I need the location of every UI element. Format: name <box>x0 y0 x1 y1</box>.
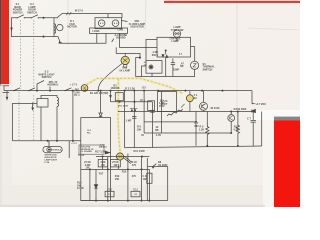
feed diode D5 <box>100 91 102 113</box>
switch S2 <box>31 15 37 18</box>
scan dark left edge <box>0 0 1 86</box>
svg-text:LOAD: LOAD <box>92 30 99 33</box>
wire lamp to board (curved) <box>98 64 122 91</box>
label 2C RECT <box>160 100 167 106</box>
label B1 <box>67 20 76 29</box>
leader diagonal <box>123 156 132 164</box>
socket feed from top <box>107 14 109 18</box>
svg-text:SWITCH: SWITCH <box>42 76 52 79</box>
wire branch to DS2 lamp <box>116 47 140 56</box>
main bus <box>4 81 256 105</box>
label DS2 <box>119 67 130 73</box>
lamp DS4 (yellow highlighted) <box>116 153 123 160</box>
label .1MF <box>152 51 159 57</box>
arrow D8 <box>152 164 156 167</box>
cap C6 symbol <box>132 117 136 119</box>
wire W27A horizontal <box>62 14 122 18</box>
svg-text:1W: 1W <box>101 164 105 167</box>
label DS1 <box>129 20 146 29</box>
right circuit <box>195 91 262 147</box>
rect box 2C <box>158 92 177 112</box>
yellow halo A <box>87 78 184 93</box>
Motorola oval <box>43 147 62 153</box>
label F1 <box>194 94 198 100</box>
red bar left <box>2 0 10 84</box>
left aux circuit <box>13 91 81 158</box>
svg-text:MOTOROLA: MOTOROLA <box>50 149 62 152</box>
scan edge shadow bottom <box>0 205 265 207</box>
lamp F1 (yellow highlighted) <box>186 95 193 102</box>
lamp DS2 (yellow highlighted) <box>98 53 129 90</box>
stub left of ballast <box>146 40 157 61</box>
label D2 <box>111 84 120 90</box>
scan edge shadow left bottom <box>0 84 2 207</box>
cap symbol inside <box>149 65 153 69</box>
white band above red block <box>251 110 300 120</box>
pilot lamp PL1 (yellow) <box>81 85 88 92</box>
svg-text:1.2K: 1.2K <box>199 128 204 131</box>
label R9 <box>199 126 204 132</box>
small boxes bottom <box>105 191 114 197</box>
svg-text:6V LAMP: 6V LAMP <box>119 69 130 72</box>
diode pair D1 <box>161 54 168 58</box>
switch S1 contact <box>17 17 18 18</box>
svg-text:SWITCH: SWITCH <box>27 11 37 14</box>
socket circle right <box>112 20 119 27</box>
svg-text:1W: 1W <box>114 164 118 167</box>
wire to AC outlet lower <box>54 37 106 44</box>
svg-text:470: 470 <box>132 164 137 167</box>
right edge wire <box>261 112 263 147</box>
thermal switch S4 <box>191 61 199 69</box>
label .47MF <box>144 53 185 72</box>
aux wires <box>40 107 42 141</box>
svg-text:+ 17 V: + 17 V <box>70 84 78 87</box>
svg-text:LAMP: LAMP <box>171 40 178 43</box>
diode D4 <box>252 109 256 112</box>
mains entry bracket <box>3 86 38 141</box>
vertical feeds <box>124 91 126 148</box>
svg-text:R17 1/2W: R17 1/2W <box>95 151 107 154</box>
socket mounting plate <box>90 28 128 33</box>
switch S1 <box>17 15 23 18</box>
svg-text:IN 4123: IN 4123 <box>211 107 220 110</box>
socket circle left <box>98 20 105 27</box>
switch S1 contact <box>24 17 25 18</box>
cap C7 <box>251 120 256 122</box>
svg-text:MOTOR: MOTOR <box>67 26 76 29</box>
yellow trace B <box>118 79 120 153</box>
label noise board <box>115 34 128 40</box>
lamp DS3 <box>173 30 180 37</box>
svg-text:1W: 1W <box>86 167 90 170</box>
bottom board circuit <box>81 154 168 202</box>
verticals <box>89 169 91 200</box>
svg-text:TP14: TP14 <box>78 154 85 157</box>
label lamp C7W <box>171 26 184 32</box>
wire S1-S2 <box>24 17 31 19</box>
svg-text:600 V: 600 V <box>152 54 159 57</box>
middle grid <box>109 91 262 148</box>
white gap left of red block <box>263 120 274 207</box>
resistor box R2 <box>115 93 123 101</box>
label S3 <box>38 71 55 80</box>
svg-text:1 MF: 1 MF <box>126 120 132 123</box>
junction node <box>42 17 44 19</box>
svg-text:W 27 A: W 27 A <box>75 10 83 13</box>
wire W27A riser <box>57 14 62 18</box>
ground arrow <box>32 103 34 108</box>
svg-text:1W: 1W <box>143 178 147 181</box>
svg-text:470: 470 <box>132 175 137 178</box>
bus nodes <box>36 90 38 92</box>
red block bottom right <box>274 120 300 207</box>
svg-text:D4 IN 4003: D4 IN 4003 <box>234 108 247 111</box>
resistor R9 <box>206 122 209 146</box>
svg-text:NORMAL: NORMAL <box>48 83 59 86</box>
svg-text:W.L.: W.L. <box>87 133 92 135</box>
label R11 <box>233 126 238 132</box>
svg-text:21.2K: 21.2K <box>77 187 84 190</box>
resistor boxes <box>98 160 107 167</box>
svg-text:22MF: 22MF <box>173 69 180 72</box>
junction node <box>42 36 44 38</box>
note box <box>79 145 104 154</box>
left leg <box>195 112 197 146</box>
svg-text:C11: C11 <box>133 188 138 191</box>
label 7W MSC <box>169 37 181 43</box>
svg-text:C 7: C 7 <box>247 118 252 121</box>
label R8 <box>137 126 162 137</box>
label S4 <box>203 63 216 72</box>
svg-text:+17 V: +17 V <box>71 143 77 145</box>
svg-text:D01 1/2W: D01 1/2W <box>134 150 146 153</box>
svg-text:P.L. BOARD: P.L. BOARD <box>80 150 92 153</box>
label C5 <box>159 100 165 108</box>
transistor Q1 <box>200 102 208 110</box>
wire motor bottom return <box>12 36 55 38</box>
leader to DS1 label <box>121 21 127 22</box>
svg-text:TYPE C7W: TYPE C7W <box>171 29 184 32</box>
svg-text:P-04: P-04 <box>45 161 50 164</box>
grey stripe on red block <box>274 117 300 121</box>
wire indicator row <box>96 156 149 164</box>
svg-text:MF: MF <box>180 65 184 68</box>
node lamp curve <box>97 90 99 92</box>
svg-text:1N4003: 1N4003 <box>111 87 120 90</box>
cap C5 symbol <box>150 111 154 113</box>
svg-text:C10: C10 <box>107 188 112 191</box>
left loop wire <box>13 103 38 140</box>
MTL leader <box>49 87 51 91</box>
leader noise text <box>112 39 114 42</box>
svg-text:MTL 2AVD: MTL 2AVD <box>118 104 129 107</box>
S3 leader <box>37 81 44 91</box>
transistor Q2 <box>228 115 235 122</box>
svg-text:LINE: LINE <box>118 29 124 32</box>
cap C2 <box>171 59 175 77</box>
red stripe top <box>164 1 300 3</box>
ballast box <box>136 30 199 77</box>
diode pair <box>131 109 137 112</box>
P.L. board outline <box>79 91 111 201</box>
mains arrow <box>10 28 13 32</box>
wire ticks <box>67 12 72 15</box>
label PL1 <box>74 89 80 98</box>
bus start hook <box>3 87 5 91</box>
yellow halo B <box>118 79 120 153</box>
wire ballast right to thermal <box>191 47 195 62</box>
svg-text:4.3K: 4.3K <box>233 128 238 131</box>
wire motor branch vertical <box>53 18 55 37</box>
svg-text:R16: R16 <box>122 171 127 174</box>
cap box below ballast <box>146 61 162 74</box>
diode D7 <box>94 185 97 188</box>
svg-text:PL 1: PL 1 <box>74 94 80 97</box>
coil R5 <box>57 98 59 107</box>
resistor R11 <box>236 112 239 146</box>
horizontals <box>81 168 150 170</box>
svg-text:SWITCH: SWITCH <box>203 68 213 71</box>
motor B1 rotor <box>57 24 63 30</box>
horizontals <box>111 101 153 103</box>
label indicator <box>45 155 58 165</box>
svg-text:(MEAS): (MEAS) <box>99 146 107 149</box>
svg-text:R1 12K 2W(7W): R1 12K 2W(7W) <box>90 92 109 95</box>
svg-text:150V: 150V <box>159 105 165 108</box>
wire thermal return <box>136 58 195 77</box>
nodes <box>230 111 232 113</box>
switch linkage dashes <box>19 20 34 140</box>
svg-text:MF: MF <box>155 129 159 132</box>
+17V wire <box>72 91 74 141</box>
label S1 <box>13 3 23 14</box>
node <box>165 50 167 52</box>
label MTL <box>48 81 59 87</box>
mains lead-in vertical <box>11 18 13 37</box>
nodes <box>89 168 91 170</box>
wire S2 to node <box>38 17 57 19</box>
svg-text:15K: 15K <box>115 178 120 181</box>
left column labels <box>77 182 84 191</box>
svg-text:R17: R17 <box>99 173 104 176</box>
lamp base <box>123 65 127 68</box>
svg-text:SWITCH: SWITCH <box>13 11 23 14</box>
svg-text:1N 3080: 1N 3080 <box>158 164 168 167</box>
label 22uF <box>155 126 159 132</box>
svg-text:TP 1: TP 1 <box>140 100 146 103</box>
motor B1 winding bumps <box>54 24 56 34</box>
svg-text:3A: 3A <box>194 97 197 100</box>
svg-text:BOARD: BOARD <box>116 37 125 40</box>
wire left caps join <box>142 66 147 77</box>
label R7 <box>194 122 199 128</box>
main bus wire <box>4 90 252 92</box>
svg-text:10K: 10K <box>137 128 142 131</box>
arrow marker <box>105 151 111 155</box>
+17V arrow end <box>251 91 253 104</box>
svg-text:+17 VDC: +17 VDC <box>256 102 267 106</box>
wire cap box bottom <box>151 73 153 76</box>
switch S2 contact <box>31 17 32 18</box>
indicator wire drop <box>68 141 70 158</box>
arrow to mains <box>6 91 8 97</box>
wire socket to ballast <box>120 33 158 47</box>
paper creases <box>68 0 300 116</box>
socket box J1 <box>90 14 158 59</box>
socket drops <box>96 33 98 43</box>
cap box right <box>147 173 152 183</box>
svg-text:4.7K: 4.7K <box>156 134 161 137</box>
switch S2 contact <box>38 17 39 18</box>
svg-text:ADJUSTOR: ADJUSTOR <box>130 26 144 29</box>
switch lever c <box>65 88 71 91</box>
svg-text:R 2 2.2K: R 2 2.2K <box>125 88 135 91</box>
pot R6 diagonal <box>167 109 183 116</box>
switch S3 lever a <box>14 88 20 91</box>
label D8 <box>158 161 168 167</box>
label S2 <box>27 3 37 14</box>
wire top feed <box>12 17 18 19</box>
switch S3 lever b <box>29 88 35 91</box>
aux box <box>37 99 48 108</box>
note text <box>80 146 94 154</box>
yellow trace A <box>87 78 184 93</box>
